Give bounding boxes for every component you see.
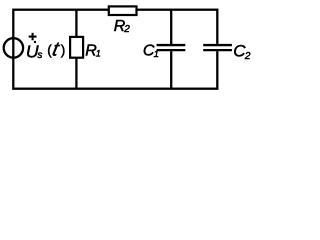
- dot accent over U: [34, 41, 36, 43]
- wire C1 branch top: [170, 10, 172, 44]
- svg-text:1: 1: [154, 49, 159, 60]
- svg-text:1: 1: [96, 49, 101, 59]
- svg-text:2: 2: [123, 24, 130, 35]
- svg-text:): ): [61, 42, 66, 57]
- wire through source symbol: [12, 38, 14, 57]
- voltage source US: [4, 38, 23, 57]
- wire C1 branch bottom: [170, 51, 172, 88]
- wire R1 branch top: [75, 10, 77, 37]
- wire R1 branch bottom: [75, 58, 77, 89]
- svg-text:s: s: [37, 50, 42, 61]
- polarity plus sign: [29, 33, 37, 40]
- wire outer loop: [13, 10, 217, 89]
- label letter t: [50, 39, 62, 61]
- resistor R2 box: [109, 6, 137, 15]
- resistor R1 box: [70, 37, 83, 58]
- capacitor C1: [157, 45, 186, 50]
- capacitor C2: [203, 44, 232, 51]
- svg-text:2: 2: [244, 51, 251, 62]
